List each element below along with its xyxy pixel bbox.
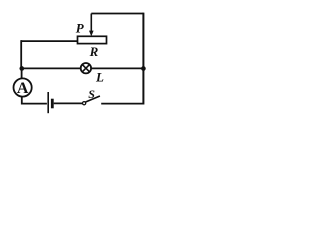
- wire: top slider feed from arrow to right side: [91, 13, 143, 15]
- node: left junction: [19, 66, 24, 71]
- rheostat slider arrow P: [89, 14, 94, 37]
- ammeter A: [14, 78, 32, 97]
- wire: left bus into ammeter: [21, 69, 23, 80]
- battery cell: [48, 92, 52, 113]
- svg-text:A: A: [17, 80, 29, 97]
- wire: lamp row left segment: [22, 67, 81, 69]
- wire: switch to right bus: [101, 103, 143, 105]
- lamp L: [81, 63, 91, 73]
- wire: right vertical bus: [142, 13, 144, 105]
- svg-text:S: S: [88, 87, 95, 101]
- switch S: [83, 96, 100, 105]
- node: right junction: [141, 66, 146, 71]
- wire: battery to switch: [54, 102, 83, 104]
- wire: lamp row right segment: [91, 67, 143, 69]
- wire: left bus below ammeter to bottom corner: [21, 97, 23, 105]
- wire: left lead from rheostat to left bus: [21, 40, 78, 42]
- svg-text:L: L: [95, 69, 104, 84]
- wire: bottom from corner to battery: [21, 103, 47, 105]
- svg-text:P: P: [76, 21, 85, 36]
- resistor R (rheostat body): [78, 36, 107, 43]
- svg-text:R: R: [89, 44, 99, 59]
- wire: left vertical bus upper segment: [20, 40, 22, 68]
